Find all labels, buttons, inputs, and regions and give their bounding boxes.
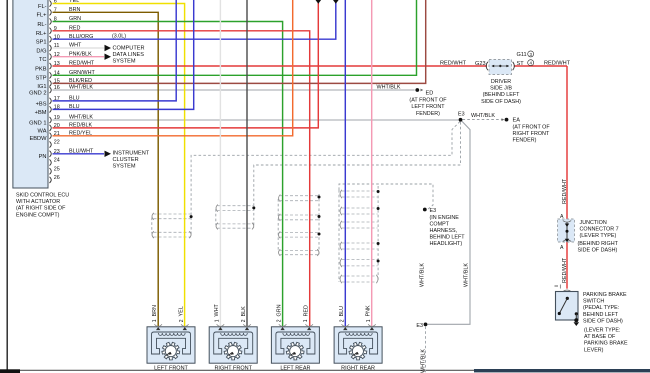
svg-text:FL+: FL+	[37, 13, 48, 19]
svg-text:LEFT FRONT: LEFT FRONT	[411, 104, 445, 110]
svg-text:PN: PN	[39, 154, 47, 160]
svg-text:20: 20	[54, 123, 60, 129]
svg-text:GRN: GRN	[276, 304, 282, 316]
svg-text:WHT/BLK: WHT/BLK	[421, 349, 427, 373]
svg-text:2: 2	[277, 319, 283, 322]
svg-text:SKID CONTROL ECU: SKID CONTROL ECU	[16, 193, 69, 199]
svg-text:LEFT FRONT: LEFT FRONT	[154, 366, 188, 372]
svg-text:E3: E3	[458, 112, 465, 118]
svg-text:BRN: BRN	[152, 305, 158, 316]
svg-text:1: 1	[303, 319, 309, 322]
svg-text:RED/WHT: RED/WHT	[69, 61, 95, 67]
svg-text:WITH ACTUATOR: WITH ACTUATOR	[16, 199, 60, 205]
svg-text:COMPUTER: COMPUTER	[113, 45, 145, 51]
svg-text:21: 21	[54, 131, 60, 137]
svg-text:D/G: D/G	[36, 48, 46, 54]
svg-text:16: 16	[54, 85, 60, 91]
svg-text:RED: RED	[304, 305, 310, 316]
svg-text:IG1: IG1	[37, 84, 46, 90]
svg-text:JUNCTION: JUNCTION	[580, 220, 607, 226]
svg-text:(LEVER TYPE): (LEVER TYPE)	[580, 233, 617, 239]
svg-text:GND 1: GND 1	[29, 120, 46, 126]
svg-text:22: 22	[54, 140, 60, 146]
svg-text:(AT RIGHT SIDE OF: (AT RIGHT SIDE OF	[16, 206, 66, 212]
svg-text:RIGHT FRONT: RIGHT FRONT	[513, 131, 550, 137]
svg-text:15: 15	[54, 79, 60, 85]
svg-text:RED/WHT: RED/WHT	[440, 60, 467, 66]
svg-text:EBDW: EBDW	[29, 136, 47, 142]
svg-text:WHT/BLK: WHT/BLK	[464, 263, 470, 287]
svg-text:18: 18	[54, 105, 60, 111]
svg-text:HEADLIGHT): HEADLIGHT)	[430, 241, 463, 247]
svg-text:PARKING BRAKE: PARKING BRAKE	[584, 341, 628, 347]
svg-text:BLK/RED: BLK/RED	[69, 78, 92, 84]
svg-text:WHT/BLK: WHT/BLK	[69, 85, 93, 91]
svg-text:GRN: GRN	[69, 16, 81, 22]
svg-text:ST: ST	[517, 61, 525, 67]
svg-text:FENDER): FENDER)	[416, 111, 440, 117]
svg-text:ED: ED	[426, 90, 434, 96]
svg-text:+BS: +BS	[36, 101, 47, 107]
svg-text:24: 24	[54, 158, 60, 164]
svg-text:DRIVER: DRIVER	[491, 79, 511, 85]
svg-text:AT BASE OF: AT BASE OF	[584, 334, 616, 340]
svg-text:13: 13	[54, 61, 60, 67]
svg-text:COMPT: COMPT	[430, 221, 450, 227]
svg-text:PNK: PNK	[366, 305, 372, 316]
svg-text:WHT/BLK: WHT/BLK	[377, 84, 401, 90]
svg-text:BLU: BLU	[69, 104, 80, 110]
svg-text:WHT: WHT	[214, 304, 220, 317]
svg-text:PKB: PKB	[35, 66, 47, 72]
svg-text:(PEDAL TYPE:: (PEDAL TYPE:	[583, 305, 619, 311]
svg-text:RED/WHT: RED/WHT	[544, 60, 571, 66]
svg-text:1: 1	[366, 319, 372, 322]
svg-text:11: 11	[54, 43, 60, 49]
svg-text:RL+: RL+	[36, 31, 47, 37]
svg-text:FENDER): FENDER)	[513, 138, 537, 144]
svg-text:9: 9	[54, 26, 57, 32]
svg-text:RED: RED	[69, 25, 80, 31]
svg-text:EA: EA	[513, 117, 521, 123]
svg-text:1: 1	[152, 319, 158, 322]
svg-text:2: 2	[339, 319, 345, 322]
svg-text:26: 26	[54, 175, 60, 181]
svg-text:23: 23	[54, 149, 60, 155]
svg-text:WHT/BLK: WHT/BLK	[420, 263, 426, 287]
svg-text:(3.0L): (3.0L)	[112, 34, 126, 40]
svg-text:RIGHT FRONT: RIGHT FRONT	[214, 366, 252, 372]
svg-text:19: 19	[54, 115, 60, 121]
svg-text:RL-: RL-	[37, 22, 46, 28]
svg-text:I: I	[560, 284, 561, 290]
svg-text:LEFT REAR: LEFT REAR	[280, 366, 310, 372]
svg-text:BLU/WHT: BLU/WHT	[69, 148, 94, 154]
svg-text:17: 17	[54, 96, 60, 102]
svg-text:GND 2: GND 2	[29, 90, 46, 96]
svg-text:YEL: YEL	[178, 306, 184, 316]
svg-text:SIDE OF DASH): SIDE OF DASH)	[583, 318, 623, 324]
svg-text:(AT FRONT OF: (AT FRONT OF	[409, 98, 447, 104]
svg-text:SIDE J/B: SIDE J/B	[490, 86, 512, 92]
svg-text:SWITCH: SWITCH	[583, 299, 604, 305]
svg-text:BRN: BRN	[69, 7, 80, 13]
svg-text:E3: E3	[430, 208, 437, 214]
svg-text:SYSTEM: SYSTEM	[113, 164, 136, 170]
svg-text:G23: G23	[475, 61, 486, 67]
svg-text:BEHIND LEFT: BEHIND LEFT	[583, 312, 619, 318]
svg-text:SIDE OF DASH): SIDE OF DASH)	[481, 99, 521, 105]
svg-text:6: 6	[54, 0, 57, 5]
svg-text:LEVER): LEVER)	[584, 347, 604, 353]
svg-text:14: 14	[54, 71, 60, 77]
svg-text:10: 10	[54, 34, 60, 40]
svg-text:TC: TC	[39, 57, 47, 63]
svg-text:12: 12	[54, 52, 60, 58]
svg-text:HARNESS,: HARNESS,	[430, 228, 458, 234]
svg-text:BLK: BLK	[241, 306, 247, 317]
svg-text:RED/WHT: RED/WHT	[562, 257, 568, 283]
svg-text:2: 2	[241, 319, 247, 322]
svg-text:PNK/BLK: PNK/BLK	[69, 51, 92, 57]
svg-text:STP: STP	[35, 76, 46, 82]
svg-text:(IN ENGINE: (IN ENGINE	[430, 215, 460, 221]
svg-text:RED/BLK: RED/BLK	[69, 123, 92, 129]
svg-text:CLUSTER: CLUSTER	[113, 157, 139, 163]
svg-text:8: 8	[54, 17, 57, 23]
svg-text:BEHIND LEFT: BEHIND LEFT	[430, 235, 466, 241]
svg-text:BLU: BLU	[69, 96, 80, 102]
svg-text:BLU: BLU	[339, 306, 345, 317]
svg-text:25: 25	[54, 166, 60, 172]
svg-text:WHT/BLK: WHT/BLK	[471, 113, 495, 119]
svg-text:E3: E3	[416, 323, 423, 329]
svg-text:(BEHIND RIGHT: (BEHIND RIGHT	[578, 241, 619, 247]
svg-text:1: 1	[214, 319, 220, 322]
svg-text:WHT/BLK: WHT/BLK	[69, 115, 93, 121]
svg-text:(AT FRONT OF: (AT FRONT OF	[513, 125, 551, 131]
svg-text:SIDE OF DASH): SIDE OF DASH)	[578, 247, 618, 253]
svg-text:A: A	[560, 245, 564, 251]
svg-text:INSTRUMENT: INSTRUMENT	[113, 151, 150, 157]
svg-text:BLU/ORG: BLU/ORG	[69, 34, 93, 40]
svg-text:FL-: FL-	[38, 4, 47, 10]
svg-text:SYSTEM: SYSTEM	[113, 59, 136, 65]
svg-text:G11: G11	[517, 52, 527, 58]
svg-text:7: 7	[54, 8, 57, 14]
svg-text:YEL: YEL	[69, 0, 79, 4]
svg-text:WHT: WHT	[69, 43, 82, 49]
svg-text:2: 2	[179, 319, 185, 322]
svg-text:RED/YEL: RED/YEL	[69, 130, 92, 136]
svg-text:WA: WA	[38, 128, 47, 134]
svg-text:ENGINE COMPT): ENGINE COMPT)	[16, 212, 60, 218]
svg-text:(BEHIND LEFT: (BEHIND LEFT	[483, 92, 521, 98]
svg-text:GRN/WHT: GRN/WHT	[69, 70, 95, 76]
svg-text:CONNECTOR 7: CONNECTOR 7	[580, 226, 619, 232]
svg-text:(LEVER TYPE:: (LEVER TYPE:	[584, 328, 620, 334]
svg-text:PARKING BRAKE: PARKING BRAKE	[583, 292, 627, 298]
svg-text:DATA LINES: DATA LINES	[113, 52, 145, 58]
svg-text:SP1: SP1	[36, 40, 47, 46]
svg-text:+BM: +BM	[35, 110, 47, 116]
svg-text:RED/WHT: RED/WHT	[562, 178, 568, 204]
svg-text:RIGHT REAR: RIGHT REAR	[341, 366, 375, 372]
